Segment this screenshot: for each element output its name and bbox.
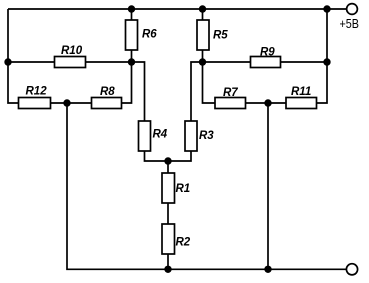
svg-text:R4: R4 xyxy=(153,129,168,141)
wire R10 right lead xyxy=(86,61,132,63)
svg-text:R5: R5 xyxy=(213,30,228,42)
wire R12-R8 row xyxy=(51,102,92,104)
node top R6 xyxy=(128,5,135,12)
wire R6 bottom lead xyxy=(131,50,133,62)
node R12-R8 xyxy=(63,99,70,106)
node top R5 xyxy=(199,5,206,12)
svg-text:R11: R11 xyxy=(291,86,311,98)
node top right xyxy=(323,5,330,12)
node R7-R11 xyxy=(264,99,271,106)
wire node to R3 top xyxy=(191,62,203,121)
node R6 bottom xyxy=(128,58,135,65)
wire left vertical xyxy=(8,9,19,103)
resistor R8 xyxy=(92,98,122,109)
wire R6 top lead xyxy=(131,9,133,20)
svg-text:+5В: +5В xyxy=(340,16,360,31)
resistor R10 xyxy=(55,57,86,68)
svg-text:R9: R9 xyxy=(260,47,275,59)
svg-text:R1: R1 xyxy=(176,183,191,195)
wire R1 bottom to R2 top xyxy=(167,203,169,224)
wire R2 bottom to rail xyxy=(167,254,169,269)
wire node to R4 top xyxy=(132,62,145,121)
wire top rail xyxy=(8,8,347,10)
resistor R6 xyxy=(126,20,138,50)
resistor R3 xyxy=(185,121,197,151)
node left rail R10 xyxy=(4,58,11,65)
resistor R7 xyxy=(215,98,246,109)
resistor R4 xyxy=(139,121,151,151)
svg-text:R2: R2 xyxy=(176,237,191,249)
wire R10 left lead xyxy=(8,61,55,63)
wire R9 left lead xyxy=(203,61,251,63)
wire R4 bottom to mid node xyxy=(145,151,169,161)
wire right mid vertical xyxy=(267,103,269,269)
resistor R2 xyxy=(162,224,175,254)
node R5 bottom xyxy=(199,58,206,65)
svg-text:R3: R3 xyxy=(199,130,214,142)
wire R5 bottom lead xyxy=(202,50,204,62)
resistor R1 xyxy=(162,173,175,203)
node bottom rail mid xyxy=(164,266,171,273)
wire R3 bottom to mid node xyxy=(168,151,191,161)
node bottom rail right xyxy=(264,266,271,273)
wire R5 top lead xyxy=(202,9,204,20)
svg-text:R8: R8 xyxy=(100,86,115,98)
wire R9 right lead xyxy=(281,61,328,63)
resistor R11 xyxy=(286,98,317,109)
wire mid node to R1 top xyxy=(167,161,169,173)
wire R7-R11 row xyxy=(246,102,287,104)
wire node down to R7 left xyxy=(203,62,216,103)
wire left node down and bottom rail xyxy=(67,103,347,269)
svg-text:R12: R12 xyxy=(26,86,48,98)
svg-text:R7: R7 xyxy=(223,87,238,99)
resistor R5 xyxy=(197,20,209,50)
node R4-R3 junction xyxy=(164,157,171,164)
resistor R12 xyxy=(19,98,51,109)
resistor R9 xyxy=(251,57,281,68)
wire right vertical to R11 xyxy=(317,9,328,103)
wire R8 right to node xyxy=(122,62,132,103)
terminal output xyxy=(346,264,357,275)
node R9 right xyxy=(323,58,330,65)
svg-text:R6: R6 xyxy=(142,28,157,40)
terminal +5V xyxy=(347,4,358,15)
svg-text:R10: R10 xyxy=(61,45,83,57)
